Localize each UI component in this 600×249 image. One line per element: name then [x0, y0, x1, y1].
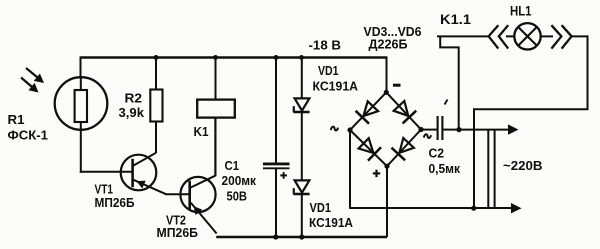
capacitor C1 plus: [280, 174, 287, 176]
wire through R1: [80, 92, 82, 130]
wire K1.1 step: [440, 36, 459, 130]
svg-text:K1: K1: [194, 124, 209, 139]
wire upper output: [459, 129, 509, 131]
wire bridge bottom down: [386, 166, 388, 237]
capacitor C1 gap: [270, 165, 282, 167]
svg-text:МП26Б: МП26Б: [157, 225, 199, 240]
photoresistor R1 body: [75, 90, 87, 122]
wire bridge edge bottom-right: [387, 130, 421, 167]
svg-text:Д226Б: Д226Б: [369, 36, 408, 51]
svg-text:0,5мк: 0,5мк: [429, 161, 461, 176]
connector chevron 3: [551, 25, 561, 48]
wire bridge edge bottom-left: [350, 130, 387, 166]
wire C1 bottom lead: [275, 168, 277, 237]
connector chevron 4: [562, 25, 572, 48]
wire top rail: [81, 56, 387, 58]
svg-text:ФСК-1: ФСК-1: [8, 128, 49, 143]
wire K1 top lead: [215, 57, 217, 100]
transistor VT1 base bar: [131, 159, 134, 187]
wire between zeners: [301, 112, 303, 181]
diode VD3: [363, 101, 378, 116]
junction dot C2 out: [456, 127, 461, 132]
transistor VT1 emitter: [134, 180, 167, 194]
svg-text:50В: 50В: [227, 189, 248, 204]
junction dot C1-rail: [274, 55, 279, 60]
transistor VT2 emitter: [191, 203, 217, 234]
svg-text:200мк: 200мк: [222, 173, 257, 188]
junction dot K1-rail: [213, 55, 218, 60]
lamp HL1: [514, 23, 540, 49]
zener diode VD1b: [295, 180, 310, 192]
svg-text:КС191А: КС191А: [309, 215, 354, 230]
diode VD5: [359, 138, 374, 153]
capacitor C1 top plate: [263, 162, 290, 165]
contact K1.1 chevron 1: [489, 25, 499, 48]
wire lower output: [350, 207, 512, 209]
svg-text:МП26Б: МП26Б: [95, 195, 135, 210]
svg-text:~220В: ~220В: [503, 158, 543, 173]
capacitor C2 left plate: [437, 116, 439, 140]
svg-text:-18 В: -18 В: [309, 38, 342, 53]
wire lamp right: [571, 35, 588, 37]
light arrow 2: [21, 78, 35, 90]
wire bridge left down: [349, 130, 351, 209]
wire rail drop to R1: [80, 56, 82, 78]
wire K1 bottom lead: [215, 118, 217, 177]
zener diode VD1a: [295, 98, 310, 110]
svg-text:C1: C1: [225, 158, 240, 173]
junction dot R2-rail: [154, 55, 159, 60]
junction dot VD1-bottom: [299, 234, 304, 239]
transistor VT2 base bar: [188, 181, 191, 210]
tilde at C2: [424, 134, 431, 138]
photoresistor R1 circle: [55, 77, 108, 130]
resistor R2 body: [150, 90, 162, 122]
wire C1 top lead: [275, 57, 277, 163]
svg-text:R1: R1: [8, 112, 25, 127]
wire VD1 top lead: [301, 57, 303, 99]
svg-text:VD1: VD1: [310, 200, 332, 215]
junction dot lower output: [471, 206, 476, 211]
transistor VT1 circle: [121, 155, 157, 191]
wire rail to bridge top: [386, 56, 388, 92]
wire to lamp: [506, 35, 553, 37]
diode VD4: [394, 101, 409, 116]
wire R1 to VT1 base: [80, 171, 133, 173]
relay coil K1 box: [197, 100, 235, 118]
node bridge top: [384, 90, 389, 95]
wire VD1 bottom lead: [301, 194, 303, 237]
node bridge bottom: [384, 164, 389, 169]
label plus: [373, 172, 380, 174]
wire VT1 emitter to VT2 base: [165, 193, 190, 195]
capacitor C1 bottom plate: [263, 167, 290, 169]
wire R1 bottom lead: [80, 130, 82, 173]
wire bridge edge top-left: [350, 92, 386, 130]
light arrow 1: [26, 68, 40, 80]
stray tick: [445, 100, 448, 105]
wire bridge edge top-right: [386, 92, 421, 129]
junction dot VD1-rail: [299, 55, 304, 60]
contact K1.1 chevron 2: [499, 25, 508, 48]
wire R2 bottom lead: [155, 122, 157, 154]
svg-text:K1.1: K1.1: [440, 12, 471, 27]
junction dot C1-bottom: [273, 234, 278, 239]
svg-text:R2: R2: [125, 91, 143, 106]
svg-text:C2: C2: [429, 146, 445, 161]
transistor VT2 collector: [191, 176, 216, 188]
transistor VT2 circle: [180, 177, 215, 212]
wire K1.1 left: [437, 35, 488, 37]
capacitor C2 right plate: [441, 116, 443, 140]
svg-text:3,9k: 3,9k: [119, 105, 145, 120]
label minus: [393, 84, 401, 87]
mains separator line 2: [494, 130, 496, 208]
svg-text:HL1: HL1: [510, 3, 532, 18]
mains separator line 1: [487, 130, 489, 208]
tilde left of bridge: [331, 127, 338, 131]
svg-text:КС191А: КС191А: [313, 78, 359, 93]
wire R1 top lead: [80, 77, 82, 92]
wire C2 to junction: [443, 129, 459, 131]
diode VD6: [399, 138, 414, 153]
wire right loop: [474, 35, 588, 208]
wire bottom rail: [216, 236, 387, 238]
node bridge left: [347, 127, 352, 132]
transistor VT1 collector: [134, 153, 157, 166]
node bridge right: [418, 127, 423, 132]
svg-text:VD1: VD1: [318, 63, 339, 78]
wire R2 top lead: [155, 57, 157, 91]
wire bridge right to C2: [421, 129, 437, 131]
